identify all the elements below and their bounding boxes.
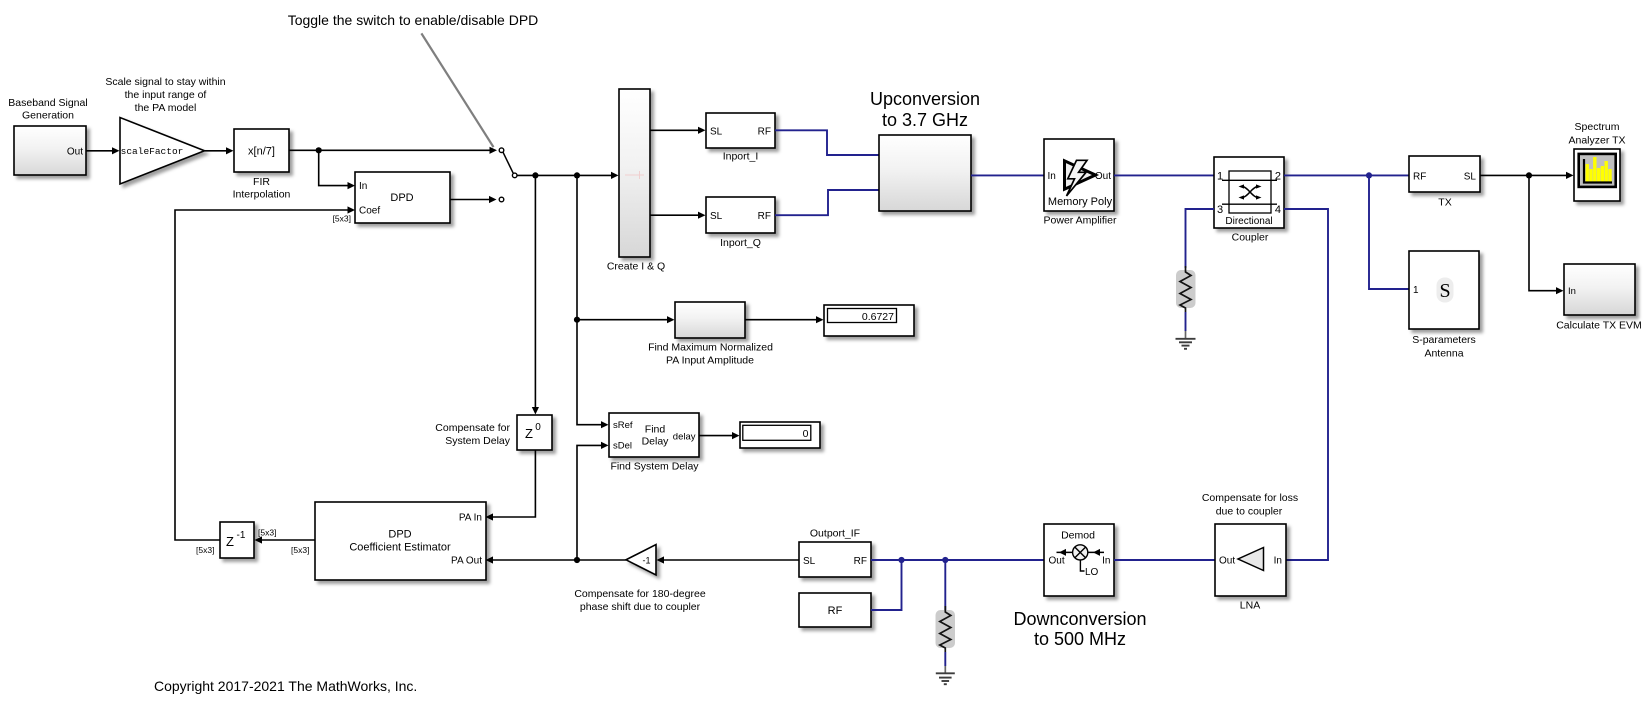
svg-text:Demod: Demod xyxy=(1061,530,1095,542)
svg-text:DPD: DPD xyxy=(388,529,411,541)
svg-text:scaleFactor: scaleFactor xyxy=(121,146,184,157)
svg-text:In: In xyxy=(359,181,367,192)
wire node E down to RF block (blue) xyxy=(871,560,902,610)
svg-text:Directional: Directional xyxy=(1225,216,1272,227)
junction on TX output wire xyxy=(1526,172,1532,178)
block Inport_I xyxy=(706,113,775,148)
ground symbol G1 xyxy=(1176,339,1196,349)
svg-text:Scale signal to stay within: Scale signal to stay within xyxy=(105,76,225,88)
svg-text:Find System Delay: Find System Delay xyxy=(610,461,699,473)
display block value 0 xyxy=(740,422,820,448)
svg-text:0.6727: 0.6727 xyxy=(862,311,894,323)
svg-text:LNA: LNA xyxy=(1240,600,1260,612)
gain scaleFactor xyxy=(120,118,205,185)
svg-text:LO: LO xyxy=(1085,567,1099,578)
svg-text:0: 0 xyxy=(803,428,809,440)
junction node F (blue) xyxy=(942,557,948,563)
svg-text:In: In xyxy=(1568,286,1576,297)
wire coupler port 3 to resistor R1 (blue) xyxy=(1186,209,1215,268)
wire Upconversion out to Power Amplifier (blue) xyxy=(971,174,1044,176)
junction node E (blue) xyxy=(898,557,904,563)
resistor R1 (termination) xyxy=(1176,270,1196,308)
svg-text:sRef: sRef xyxy=(613,420,633,431)
svg-text:RF: RF xyxy=(854,556,867,567)
unit delay block Z-1 xyxy=(220,522,254,558)
wire branch to Find Maximum block xyxy=(577,319,668,321)
svg-text:Upconversion: Upconversion xyxy=(870,89,980,109)
wire Create I & Q out1 to Inport_I xyxy=(650,129,699,131)
subsystem Create I & Q xyxy=(619,89,650,257)
svg-text:SL: SL xyxy=(1464,171,1477,182)
op-amp/PA block Memory Poly Power Amplifier xyxy=(1044,139,1114,211)
svg-text:delay: delay xyxy=(673,431,696,442)
svg-text:Spectrum: Spectrum xyxy=(1575,121,1620,133)
svg-text:Inport_Q: Inport_Q xyxy=(720,237,761,249)
wire resistor R1 to ground (blue) xyxy=(1185,312,1187,331)
svg-text:3: 3 xyxy=(1217,204,1223,216)
svg-text:Out: Out xyxy=(67,147,83,158)
block Z0 Compensate for System Delay xyxy=(517,415,552,450)
wire node A down to Z0 xyxy=(534,175,536,408)
manual switch input contact 2 xyxy=(499,197,504,202)
svg-text:SL: SL xyxy=(710,126,723,137)
svg-text:Toggle the switch to enable/di: Toggle the switch to enable/disable DPD xyxy=(288,12,539,28)
wire Create I & Q out2 to Inport_Q xyxy=(650,214,699,216)
svg-text:4: 4 xyxy=(1275,204,1281,216)
svg-text:Out: Out xyxy=(1219,556,1235,567)
svg-text:Coupler: Coupler xyxy=(1232,232,1269,244)
svg-text:Coefficient Estimator: Coefficient Estimator xyxy=(349,542,451,554)
wire FIR output to switch input 1 xyxy=(289,149,491,151)
wire Outport_IF SL to gain -1 xyxy=(663,559,799,561)
svg-text:RF: RF xyxy=(1413,171,1426,182)
svg-text:[5x3]: [5x3] xyxy=(333,214,351,224)
block Inport_Q xyxy=(706,197,775,233)
svg-text:Downconversion: Downconversion xyxy=(1013,609,1146,629)
wire coupler port 2 to TX RF (blue) xyxy=(1284,174,1409,176)
wire LNA Out to Demod In (blue) xyxy=(1114,559,1215,561)
subsystem Find Maximum Normalized PA Input Amplitude xyxy=(675,302,745,338)
scope Spectrum Analyzer TX xyxy=(1574,149,1620,201)
svg-text:Outport_IF: Outport_IF xyxy=(810,528,860,540)
svg-text:the PA model: the PA model xyxy=(135,102,197,114)
svg-text:[5x3]: [5x3] xyxy=(291,545,309,555)
svg-text:Compensate for: Compensate for xyxy=(435,422,510,434)
wire node B down to sRef xyxy=(577,175,602,424)
block DPD Coefficient Estimator xyxy=(315,502,486,580)
svg-text:DPD: DPD xyxy=(390,192,413,204)
block Outport_IF xyxy=(799,542,871,577)
subsystem Upconversion to 3.7 GHz xyxy=(879,135,971,211)
svg-text:S: S xyxy=(1439,280,1450,302)
block S-parameters Antenna xyxy=(1409,251,1479,329)
svg-text:PA Input Amplitude: PA Input Amplitude xyxy=(666,355,754,367)
svg-text:System Delay: System Delay xyxy=(445,435,511,447)
svg-text:Coef: Coef xyxy=(359,206,380,217)
display block value 0.6727 xyxy=(824,305,914,336)
svg-text:-1: -1 xyxy=(237,530,246,541)
subsystem Baseband Signal Generation xyxy=(14,126,86,175)
wire delay out to display xyxy=(699,435,733,437)
gain -1 (Compensate for 180-degree phase shift) xyxy=(626,545,656,576)
block TX xyxy=(1409,156,1480,192)
svg-text:Generation: Generation xyxy=(22,110,74,122)
svg-text:Analyzer TX: Analyzer TX xyxy=(1569,135,1626,147)
junction on TX input wire (blue) xyxy=(1366,172,1372,178)
svg-text:Find: Find xyxy=(645,424,666,436)
svg-text:RF: RF xyxy=(828,605,843,617)
block LNA xyxy=(1215,524,1286,596)
svg-text:[5x3]: [5x3] xyxy=(258,528,276,538)
junction on FIR output wire xyxy=(316,147,322,153)
wire TX SL to Spectrum Analyzer xyxy=(1480,174,1567,176)
wire Inport_Q RF to Upconversion in2 (blue) xyxy=(775,190,879,215)
svg-text:Interpolation: Interpolation xyxy=(233,189,291,201)
svg-text:In: In xyxy=(1274,556,1282,567)
svg-text:sDel: sDel xyxy=(613,441,632,452)
wire Power Amplifier out to coupler port 1 (blue) xyxy=(1114,174,1214,176)
subsystem Calculate TX EVM xyxy=(1564,264,1635,315)
svg-text:Out: Out xyxy=(1095,171,1111,182)
wire switch output to Create I & Q xyxy=(517,174,612,176)
junction node A (to Z0 delay line) xyxy=(532,172,538,178)
svg-text:1: 1 xyxy=(1413,285,1419,296)
svg-text:[5x3]: [5x3] xyxy=(196,545,214,555)
block Find System Delay xyxy=(609,413,699,457)
svg-text:Find Maximum Normalized: Find Maximum Normalized xyxy=(648,342,773,354)
svg-text:SL: SL xyxy=(803,556,816,567)
wire coupler port 4 to LNA In (blue) xyxy=(1284,209,1328,560)
svg-text:Z: Z xyxy=(226,534,234,549)
svg-text:Baseband Signal: Baseband Signal xyxy=(8,97,87,109)
svg-text:In: In xyxy=(1048,171,1056,182)
wire node D up to sDel xyxy=(577,445,602,560)
svg-text:Delay: Delay xyxy=(642,436,670,448)
svg-text:to 3.7 GHz: to 3.7 GHz xyxy=(882,110,968,130)
svg-text:Memory Poly: Memory Poly xyxy=(1048,196,1113,208)
block DPD xyxy=(355,172,450,223)
ground symbol G2 xyxy=(936,673,955,684)
svg-text:SL: SL xyxy=(710,211,723,222)
wire node F down to resistor R2 (blue) xyxy=(944,560,946,612)
wire Z0 out down and left to PA In xyxy=(492,450,535,517)
svg-text:FIR: FIR xyxy=(253,176,270,188)
svg-text:S-parameters: S-parameters xyxy=(1412,334,1476,346)
svg-text:Power Amplifier: Power Amplifier xyxy=(1044,215,1117,227)
svg-text:x[n/7]: x[n/7] xyxy=(248,146,275,158)
wire resistor R2 to ground (blue) xyxy=(944,652,946,666)
svg-text:TX: TX xyxy=(1438,197,1451,209)
manual switch lever xyxy=(503,152,513,173)
wire gain -1 out to PA Out xyxy=(492,559,626,561)
wire Demod Out to Outport_IF RF (blue) xyxy=(871,559,1044,561)
svg-text:Z: Z xyxy=(525,426,533,441)
wire Inport_I RF to Upconversion in1 (blue) xyxy=(775,130,879,155)
svg-text:0: 0 xyxy=(535,422,541,433)
junction node C (branch to Find Max) xyxy=(574,317,580,323)
wire gain to FIR Interpolation xyxy=(205,150,228,152)
svg-text:Out: Out xyxy=(1049,556,1065,567)
svg-text:In: In xyxy=(1102,556,1110,567)
junction node D xyxy=(574,557,580,563)
wire Z-1 out up to DPD Coef input xyxy=(175,210,348,540)
manual switch input contact 1 xyxy=(499,148,504,153)
wire DPD output to switch input 2 xyxy=(450,199,490,201)
svg-text:Compensate for loss: Compensate for loss xyxy=(1202,492,1298,504)
svg-text:Copyright 2017-2021 The MathWo: Copyright 2017-2021 The MathWorks, Inc. xyxy=(154,678,417,694)
wire DPD Coefficient Estimator out to Z-1 xyxy=(261,539,315,541)
svg-text:Inport_I: Inport_I xyxy=(723,151,759,163)
annotation leader line to switch xyxy=(421,33,493,147)
block Directional Coupler xyxy=(1214,157,1284,228)
svg-text:Antenna: Antenna xyxy=(1424,348,1463,360)
svg-text:RF: RF xyxy=(758,211,771,222)
block Demod (mixer) xyxy=(1044,524,1114,596)
svg-text:Create I & Q: Create I & Q xyxy=(607,261,665,273)
svg-text:RF: RF xyxy=(758,126,771,137)
svg-text:PA In: PA In xyxy=(459,512,482,523)
svg-text:PA Out: PA Out xyxy=(451,555,482,566)
manual switch output contact xyxy=(512,173,517,178)
junction node B (to sRef / Find Max) xyxy=(574,172,580,178)
svg-text:phase shift due to coupler: phase shift due to coupler xyxy=(580,601,701,613)
svg-text:to 500 MHz: to 500 MHz xyxy=(1034,629,1126,649)
resistor R2 (termination) xyxy=(936,610,956,648)
svg-text:-1: -1 xyxy=(642,556,650,566)
svg-text:Compensate for 180-degree: Compensate for 180-degree xyxy=(574,588,705,600)
wire Baseband Out to gain xyxy=(86,150,113,152)
svg-text:due to coupler: due to coupler xyxy=(1216,506,1283,518)
wire branch down to DPD In xyxy=(319,150,348,185)
wire branch to Calculate TX EVM xyxy=(1529,175,1557,290)
wire Find Maximum to display xyxy=(745,319,817,321)
wire branch to S-parameters Antenna (blue) xyxy=(1369,175,1409,289)
svg-text:Calculate TX EVM: Calculate TX EVM xyxy=(1556,320,1642,332)
svg-text:the input range of: the input range of xyxy=(125,89,207,101)
block FIR Interpolation x[n/7] xyxy=(234,129,289,172)
block RF xyxy=(799,593,871,627)
